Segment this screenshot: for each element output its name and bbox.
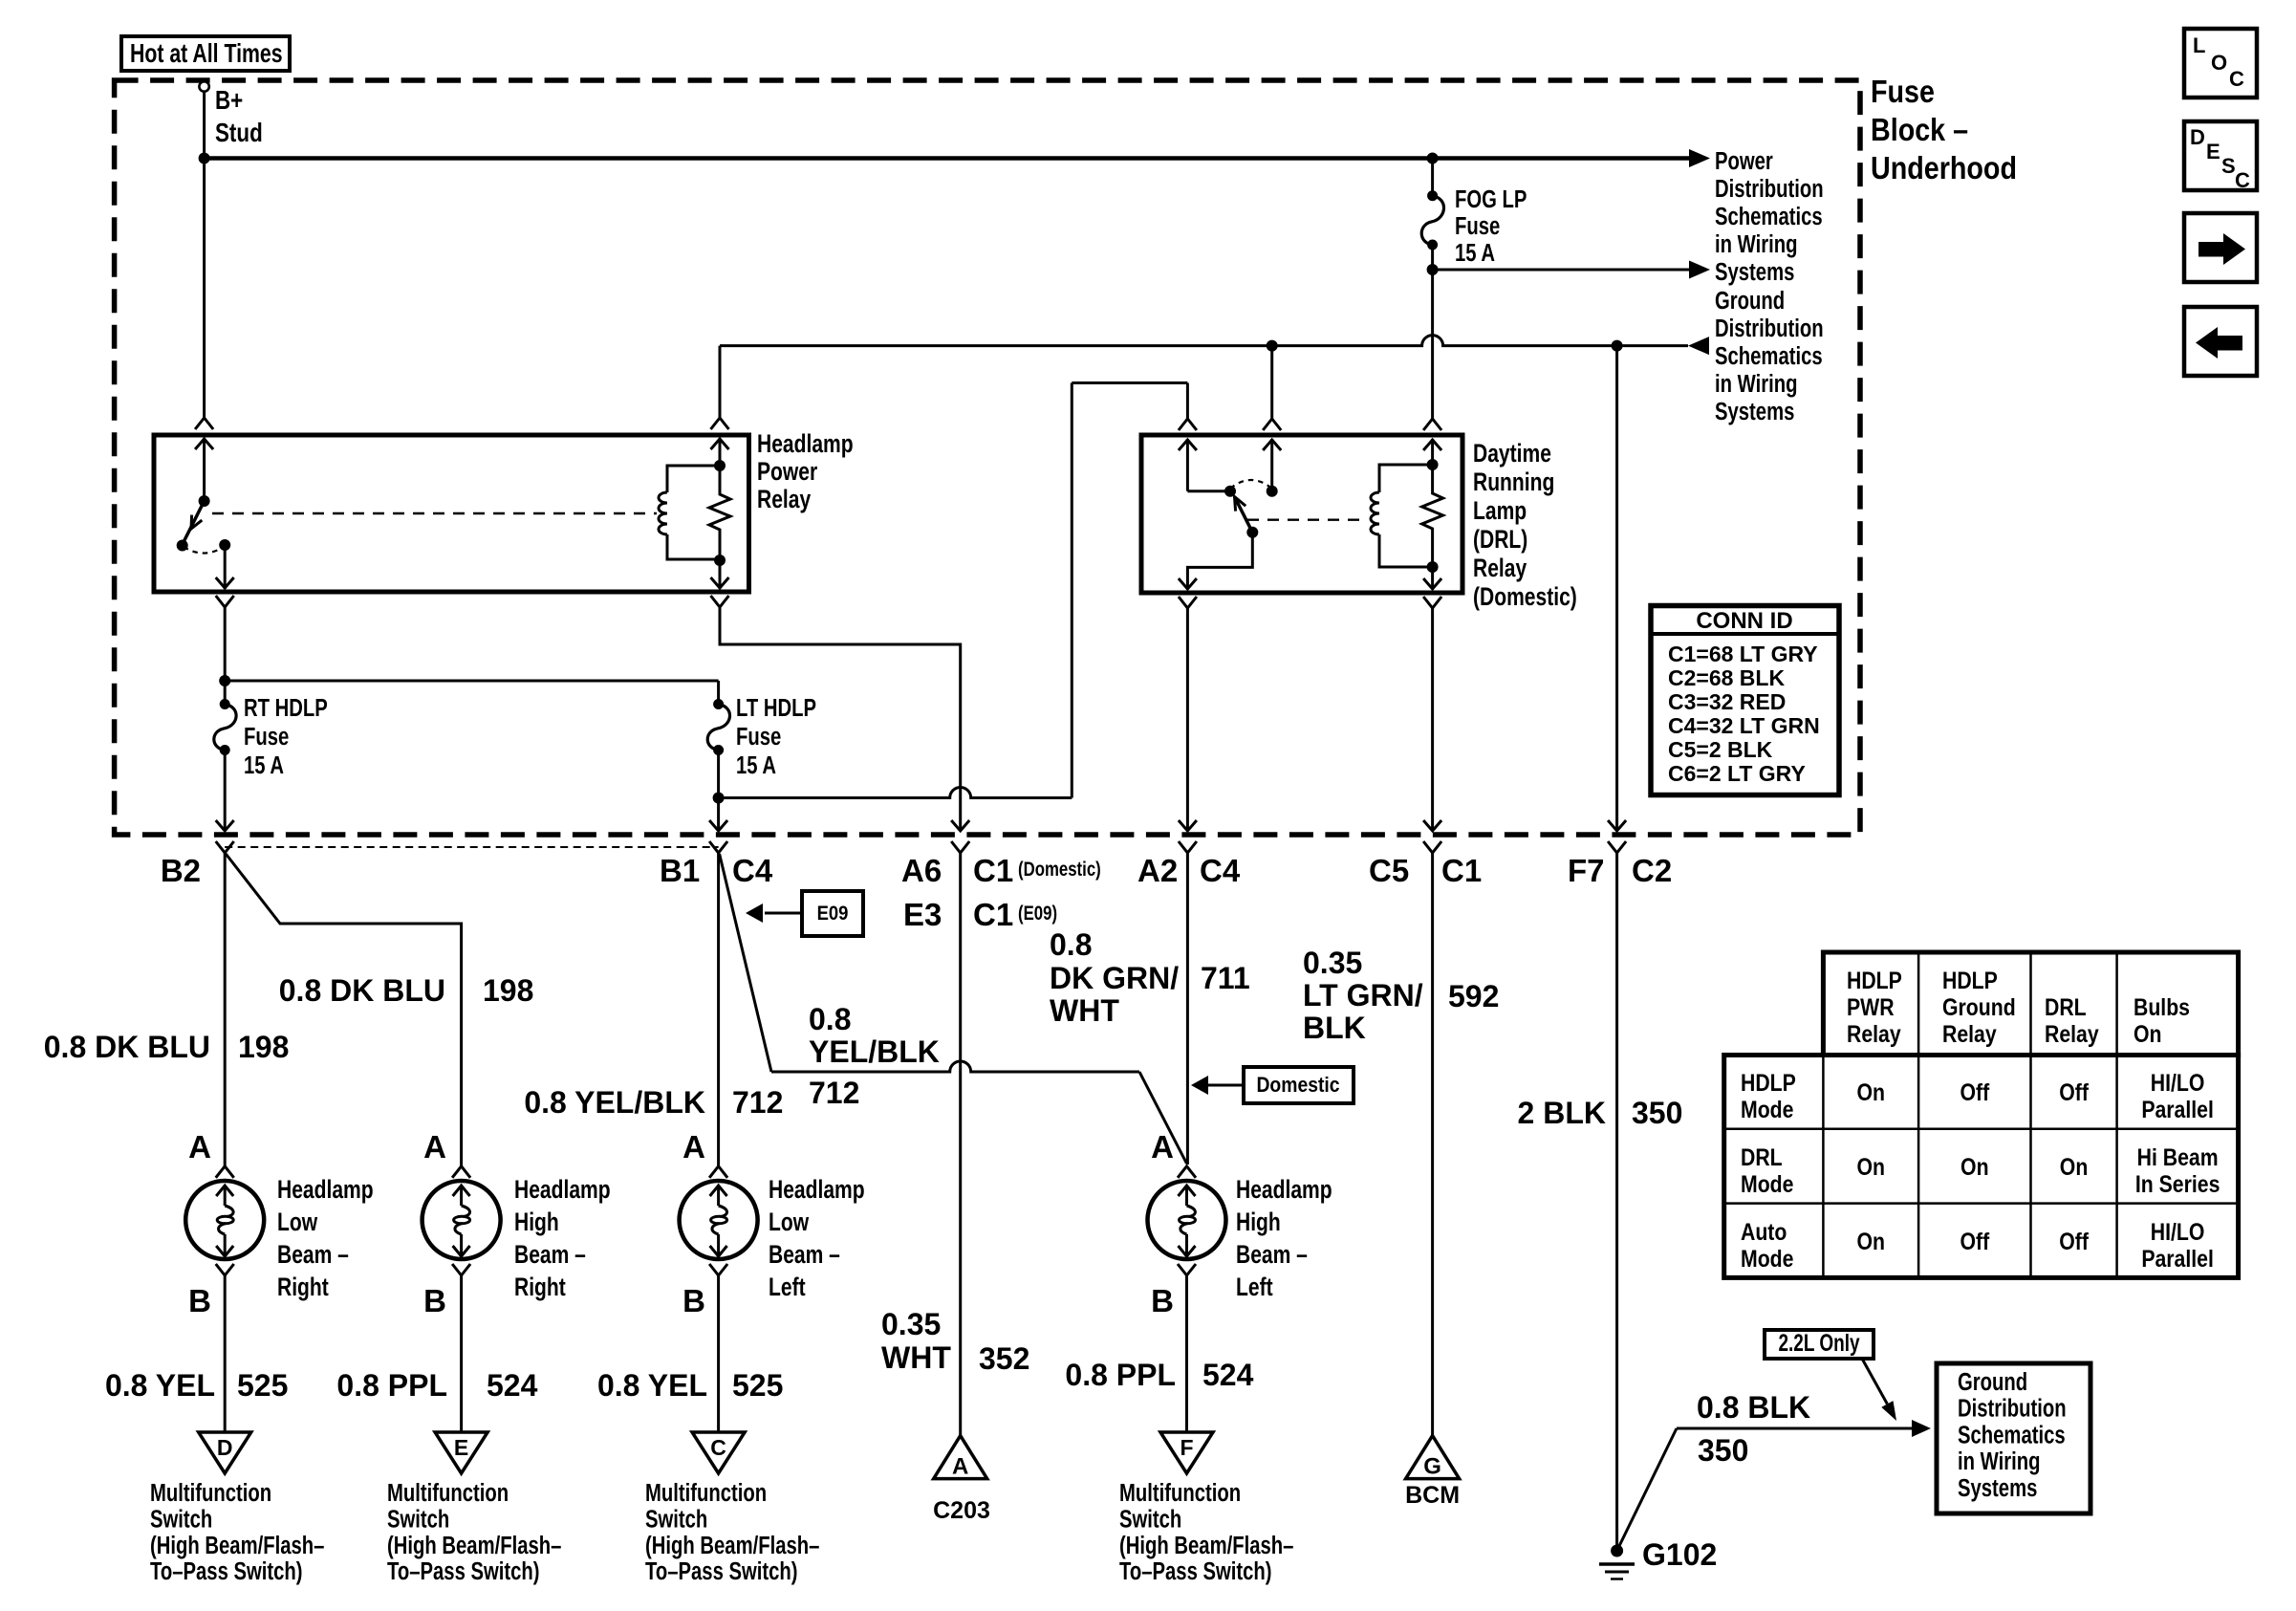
svg-text:Off: Off [2059, 1078, 2089, 1105]
svg-text:Switch: Switch [1119, 1505, 1181, 1533]
svg-text:350: 350 [1698, 1433, 1748, 1468]
svg-text:C4: C4 [732, 853, 773, 888]
svg-text:On: On [2060, 1153, 2088, 1180]
svg-text:A2: A2 [1137, 853, 1178, 888]
svg-text:0.35: 0.35 [881, 1307, 941, 1341]
svg-text:Systems: Systems [1715, 258, 1794, 286]
svg-text:592: 592 [1448, 979, 1499, 1013]
svg-text:Relay: Relay [1473, 555, 1527, 583]
svg-text:On: On [1857, 1078, 1885, 1105]
svg-text:LT HDLP: LT HDLP [736, 694, 816, 722]
svg-text:Hot at All Times: Hot at All Times [130, 38, 283, 69]
svg-text:Left: Left [769, 1274, 806, 1302]
svg-text:in Wiring: in Wiring [1958, 1448, 2040, 1475]
svg-text:Block –: Block – [1871, 112, 1968, 147]
svg-text:Headlamp: Headlamp [757, 430, 854, 459]
svg-text:Underhood: Underhood [1871, 150, 2017, 185]
svg-text:Parallel: Parallel [2141, 1245, 2214, 1272]
svg-text:in Wiring: in Wiring [1715, 230, 1797, 258]
svg-text:A: A [188, 1129, 211, 1165]
svg-text:Power: Power [757, 458, 818, 487]
svg-text:A6: A6 [901, 853, 942, 888]
svg-text:Right: Right [277, 1274, 329, 1302]
svg-text:Power: Power [1715, 147, 1773, 175]
svg-text:Stud: Stud [215, 119, 263, 148]
svg-text:A: A [1151, 1129, 1174, 1165]
svg-text:E: E [454, 1435, 468, 1460]
svg-text:0.8 YEL/BLK: 0.8 YEL/BLK [524, 1085, 705, 1120]
svg-text:HDLP: HDLP [1847, 967, 1902, 993]
svg-text:198: 198 [483, 973, 533, 1008]
svg-text:2 BLK: 2 BLK [1518, 1096, 1606, 1130]
svg-text:2.2L Only: 2.2L Only [1778, 1329, 1860, 1356]
svg-text:E3: E3 [903, 897, 942, 932]
svg-text:To–Pass Switch): To–Pass Switch) [1119, 1557, 1272, 1585]
svg-text:Domestic: Domestic [1256, 1074, 1339, 1097]
svg-text:To–Pass Switch): To–Pass Switch) [150, 1557, 303, 1585]
svg-text:Multifunction: Multifunction [645, 1479, 767, 1507]
svg-text:(Domestic): (Domestic) [1018, 859, 1101, 881]
svg-text:Lamp: Lamp [1473, 497, 1527, 526]
svg-text:Mode: Mode [1741, 1245, 1794, 1272]
svg-text:in Wiring: in Wiring [1715, 370, 1797, 398]
svg-text:YEL/BLK: YEL/BLK [809, 1034, 940, 1069]
svg-text:F: F [1180, 1435, 1193, 1460]
svg-text:525: 525 [732, 1368, 783, 1403]
svg-text:C203: C203 [933, 1497, 990, 1524]
svg-text:Hi Beam: Hi Beam [2137, 1143, 2219, 1170]
svg-text:DRL: DRL [1741, 1143, 1783, 1170]
svg-text:(High Beam/Flash–: (High Beam/Flash– [387, 1531, 561, 1558]
svg-text:Beam –: Beam – [514, 1241, 586, 1270]
svg-text:Headlamp: Headlamp [514, 1176, 611, 1205]
svg-text:C1: C1 [973, 853, 1013, 888]
svg-text:PWR: PWR [1847, 993, 1895, 1020]
svg-text:Fuse: Fuse [244, 723, 289, 751]
svg-text:To–Pass Switch): To–Pass Switch) [387, 1557, 540, 1585]
svg-text:0.8 PPL: 0.8 PPL [336, 1368, 447, 1403]
svg-text:(DRL): (DRL) [1473, 526, 1527, 555]
svg-text:High: High [514, 1208, 559, 1237]
svg-text:B: B [682, 1283, 705, 1318]
svg-text:C5=2 BLK: C5=2 BLK [1668, 737, 1773, 762]
svg-text:WHT: WHT [1050, 993, 1119, 1028]
svg-text:524: 524 [487, 1368, 538, 1403]
svg-text:Multifunction: Multifunction [387, 1479, 509, 1507]
svg-text:Relay: Relay [2045, 1020, 2099, 1047]
svg-text:0.8 PPL: 0.8 PPL [1065, 1358, 1176, 1392]
svg-text:C: C [2235, 168, 2250, 192]
svg-text:BLK: BLK [1303, 1011, 1366, 1045]
svg-text:0.8 BLK: 0.8 BLK [1697, 1390, 1810, 1425]
svg-text:Off: Off [1960, 1228, 1989, 1254]
svg-text:C2=68 BLK: C2=68 BLK [1668, 665, 1785, 690]
svg-text:Fuse: Fuse [1871, 74, 1935, 109]
svg-text:Headlamp: Headlamp [1236, 1176, 1332, 1205]
svg-text:Beam –: Beam – [277, 1241, 349, 1270]
svg-text:DK GRN/: DK GRN/ [1050, 961, 1179, 995]
svg-text:F7: F7 [1568, 853, 1605, 888]
svg-text:RT HDLP: RT HDLP [244, 694, 328, 722]
svg-text:Left: Left [1236, 1274, 1273, 1302]
svg-text:WHT: WHT [881, 1340, 951, 1375]
svg-text:B1: B1 [660, 853, 700, 888]
svg-text:712: 712 [732, 1085, 783, 1120]
svg-text:On: On [1960, 1153, 1988, 1180]
svg-text:B: B [1151, 1283, 1174, 1318]
svg-text:Relay: Relay [757, 486, 812, 514]
svg-text:Multifunction: Multifunction [1119, 1479, 1241, 1507]
svg-text:Headlamp: Headlamp [277, 1176, 374, 1205]
svg-text:B2: B2 [161, 853, 201, 888]
svg-text:(Domestic): (Domestic) [1473, 583, 1577, 612]
svg-text:B+: B+ [215, 86, 243, 116]
svg-text:HI/LO: HI/LO [2151, 1218, 2205, 1245]
svg-text:Fuse: Fuse [1455, 212, 1500, 240]
svg-text:Schematics: Schematics [1715, 203, 1823, 230]
svg-text:15 A: 15 A [244, 751, 284, 779]
svg-text:On: On [1857, 1228, 1885, 1254]
svg-text:HDLP: HDLP [1942, 967, 1998, 993]
svg-text:Off: Off [1960, 1078, 1989, 1105]
svg-text:0.8: 0.8 [809, 1002, 851, 1036]
svg-text:High: High [1236, 1208, 1281, 1237]
svg-text:0.8 YEL: 0.8 YEL [597, 1368, 707, 1403]
svg-text:L: L [2193, 33, 2205, 57]
svg-text:15 A: 15 A [736, 751, 776, 779]
svg-text:(E09): (E09) [1018, 903, 1057, 925]
svg-text:CONN ID: CONN ID [1696, 608, 1792, 634]
svg-text:Beam –: Beam – [769, 1241, 840, 1270]
svg-text:C4=32 LT GRN: C4=32 LT GRN [1668, 713, 1820, 738]
svg-text:C: C [2229, 67, 2244, 91]
svg-text:C6=2 LT GRY: C6=2 LT GRY [1668, 761, 1806, 786]
svg-text:FOG LP: FOG LP [1455, 185, 1527, 213]
svg-text:Low: Low [277, 1208, 317, 1237]
svg-text:Systems: Systems [1958, 1473, 2037, 1501]
svg-text:(High Beam/Flash–: (High Beam/Flash– [150, 1531, 324, 1558]
svg-text:Headlamp: Headlamp [769, 1176, 865, 1205]
svg-text:352: 352 [979, 1341, 1029, 1376]
svg-text:B: B [188, 1283, 211, 1318]
svg-text:Running: Running [1473, 468, 1554, 497]
svg-text:Off: Off [2059, 1228, 2089, 1254]
svg-text:Distribution: Distribution [1715, 315, 1824, 342]
svg-text:On: On [1857, 1153, 1885, 1180]
svg-text:S: S [2221, 154, 2236, 178]
svg-text:BCM: BCM [1405, 1482, 1460, 1509]
svg-text:Beam –: Beam – [1236, 1241, 1308, 1270]
svg-text:A: A [423, 1129, 446, 1165]
svg-text:Schematics: Schematics [1958, 1421, 2066, 1448]
svg-text:A: A [682, 1129, 705, 1165]
svg-text:Mode: Mode [1741, 1096, 1794, 1122]
svg-text:D: D [217, 1435, 233, 1460]
svg-text:C3=32 RED: C3=32 RED [1668, 689, 1786, 714]
svg-text:0.8 DK BLU: 0.8 DK BLU [279, 973, 445, 1008]
svg-text:O: O [2211, 51, 2227, 75]
svg-text:To–Pass Switch): To–Pass Switch) [645, 1557, 798, 1585]
svg-text:HI/LO: HI/LO [2151, 1069, 2205, 1096]
svg-text:(High Beam/Flash–: (High Beam/Flash– [645, 1531, 819, 1558]
svg-text:Ground: Ground [1958, 1368, 2027, 1396]
svg-text:C5: C5 [1369, 853, 1409, 888]
svg-text:Switch: Switch [645, 1505, 707, 1533]
svg-text:0.8: 0.8 [1050, 927, 1092, 962]
svg-text:0.35: 0.35 [1303, 946, 1362, 980]
svg-text:0.8 DK BLU: 0.8 DK BLU [44, 1030, 210, 1064]
svg-text:DRL: DRL [2045, 993, 2087, 1020]
svg-text:0.8 YEL: 0.8 YEL [105, 1368, 215, 1403]
svg-text:712: 712 [809, 1076, 859, 1110]
svg-text:Switch: Switch [150, 1505, 212, 1533]
svg-text:Switch: Switch [387, 1505, 449, 1533]
svg-text:C: C [710, 1435, 726, 1460]
svg-text:HDLP: HDLP [1741, 1069, 1796, 1096]
svg-text:Relay: Relay [1847, 1020, 1901, 1047]
svg-text:C1=68 LT GRY: C1=68 LT GRY [1668, 642, 1818, 666]
svg-text:Ground: Ground [1715, 287, 1785, 315]
svg-text:A: A [952, 1454, 968, 1480]
svg-text:15 A: 15 A [1455, 239, 1495, 267]
svg-text:C4: C4 [1200, 853, 1241, 888]
svg-text:Multifunction: Multifunction [150, 1479, 271, 1507]
svg-text:B: B [423, 1283, 446, 1318]
svg-text:(High Beam/Flash–: (High Beam/Flash– [1119, 1531, 1293, 1558]
svg-text:Distribution: Distribution [1715, 175, 1824, 203]
svg-text:Right: Right [514, 1274, 566, 1302]
svg-text:524: 524 [1202, 1358, 1254, 1392]
svg-text:Auto: Auto [1741, 1218, 1787, 1245]
svg-text:E: E [2206, 140, 2220, 163]
svg-text:Distribution: Distribution [1958, 1394, 2067, 1422]
svg-text:Daytime: Daytime [1473, 440, 1551, 468]
svg-text:C2: C2 [1632, 853, 1672, 888]
svg-text:Systems: Systems [1715, 398, 1794, 425]
svg-text:G102: G102 [1642, 1537, 1717, 1572]
svg-text:Schematics: Schematics [1715, 342, 1823, 370]
svg-text:711: 711 [1201, 961, 1250, 995]
svg-text:350: 350 [1632, 1096, 1682, 1130]
svg-text:In Series: In Series [2135, 1170, 2220, 1197]
svg-text:LT GRN/: LT GRN/ [1303, 978, 1423, 1012]
svg-text:525: 525 [237, 1368, 288, 1403]
svg-text:198: 198 [238, 1030, 289, 1064]
svg-text:D: D [2190, 125, 2205, 149]
svg-text:C1: C1 [1441, 853, 1482, 888]
svg-text:E09: E09 [817, 903, 849, 925]
svg-text:Mode: Mode [1741, 1170, 1794, 1197]
svg-text:Parallel: Parallel [2141, 1096, 2214, 1122]
svg-text:Bulbs: Bulbs [2134, 993, 2190, 1020]
svg-text:G: G [1423, 1454, 1441, 1480]
svg-text:Fuse: Fuse [736, 723, 781, 751]
svg-text:Ground: Ground [1942, 993, 2016, 1020]
svg-text:On: On [2134, 1020, 2161, 1047]
svg-text:Relay: Relay [1942, 1020, 1997, 1047]
svg-text:C1: C1 [973, 897, 1013, 932]
svg-text:Low: Low [769, 1208, 809, 1237]
